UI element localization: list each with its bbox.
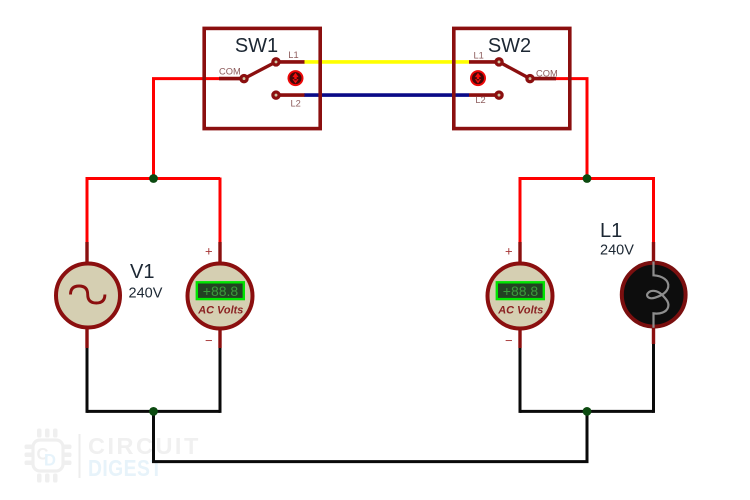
V1 bottom pin stub <box>85 328 88 348</box>
svg-text:L1: L1 <box>474 50 484 60</box>
U2 LCD display <box>497 282 544 299</box>
SW2 toggle actuator button <box>470 70 486 86</box>
AC source V1 <box>56 242 163 348</box>
svg-text:240V: 240V <box>129 286 163 302</box>
SW2 pin stub L2 <box>469 93 495 97</box>
svg-text:+88.8: +88.8 <box>503 283 539 299</box>
wire: black return bus between loops <box>154 411 588 461</box>
L1 top pin stub <box>652 242 655 262</box>
SW2 pin stub L1 <box>469 60 495 64</box>
SW1 terminal COM <box>241 76 247 82</box>
L1 bottom pin stub <box>652 327 655 344</box>
junction node: left bottom <box>149 407 158 416</box>
junction node: right bottom <box>583 407 592 416</box>
SW1 pin stub COM <box>219 77 240 81</box>
wire: yellow traveler L1 between SW1 and SW2 <box>304 60 469 64</box>
svg-text:−: − <box>205 333 213 348</box>
watermark CircuitDigest logo <box>25 429 201 483</box>
svg-text:DIGEST: DIGEST <box>88 455 163 481</box>
svg-text:+: + <box>505 243 513 258</box>
U2 top pin stub <box>518 242 521 263</box>
wire: red lamp L1 top drop <box>652 177 655 244</box>
V1 sine symbol <box>71 286 105 303</box>
svg-text:AC Volts: AC Volts <box>197 304 243 316</box>
wire: red voltmeter U2 top drop <box>519 177 522 244</box>
svg-text:D: D <box>44 452 56 470</box>
SW2 lever L1->COM <box>499 62 530 79</box>
switch SW2 <box>454 28 570 128</box>
svg-text:L1: L1 <box>288 50 298 60</box>
L1 body circle <box>622 263 686 327</box>
svg-text:240V: 240V <box>600 243 634 259</box>
U1 top pin stub <box>218 242 221 263</box>
SW2 pin stub COM <box>534 77 556 81</box>
wire: red top rail of left loop <box>87 177 220 180</box>
U1 bottom pin stub <box>218 329 221 348</box>
wire: black bottom rail of right loop <box>520 410 654 413</box>
wire: black voltmeter U2 bottom drop <box>519 346 522 413</box>
svg-text:COM: COM <box>219 67 241 77</box>
SW2 terminal L2 <box>496 92 502 98</box>
U2 body circle <box>488 264 553 329</box>
SW1 pin stub L2 <box>280 93 305 97</box>
wire: black voltmeter U1 bottom drop <box>219 346 222 413</box>
voltmeter U2 (AC Volts) <box>488 242 553 348</box>
wire: red top rail of right loop <box>520 177 654 180</box>
wire: red from SW2 COM to right loop <box>555 79 587 179</box>
SW2 terminal L1 <box>496 59 502 65</box>
svg-text:+88.8: +88.8 <box>203 283 239 299</box>
SW1 pin stub L1 <box>280 60 305 64</box>
svg-text:COM: COM <box>536 69 558 79</box>
U2 bottom pin stub <box>518 329 521 348</box>
SW1 terminal L1 <box>273 59 279 65</box>
switch SW1 <box>204 28 320 128</box>
wire: red from SW1 COM left <box>154 79 220 179</box>
svg-text:AC Volts: AC Volts <box>497 304 543 316</box>
lamp L1 <box>600 220 686 344</box>
wire: black bottom rail of left loop <box>87 410 220 413</box>
svg-text:−: − <box>505 333 513 348</box>
wire: black lamp bottom drop <box>652 344 655 413</box>
V1 top pin stub <box>85 242 88 263</box>
wire: red voltmeter U1 top drop <box>219 178 222 245</box>
U1 LCD display <box>197 282 244 299</box>
svg-text:L1: L1 <box>600 220 622 242</box>
L1 filament <box>647 262 668 328</box>
wire: red V1 top drop <box>86 177 89 244</box>
voltmeter U1 (AC Volts) <box>188 242 253 348</box>
svg-text:SW1: SW1 <box>235 35 278 57</box>
svg-text:L2: L2 <box>291 99 301 109</box>
svg-text:V1: V1 <box>130 261 154 283</box>
svg-text:+: + <box>205 243 213 258</box>
junction node: left top <box>149 174 158 183</box>
SW1 toggle actuator button <box>288 70 304 86</box>
svg-text:L2: L2 <box>475 95 485 105</box>
SW2 terminal COM <box>527 76 533 82</box>
V1 body circle <box>56 264 120 328</box>
wire: blue traveler L2 between SW1 and SW2 <box>304 93 469 97</box>
wire: black V1 bottom drop <box>86 346 89 413</box>
svg-text:SW2: SW2 <box>488 35 531 57</box>
SW1 terminal L2 <box>273 92 279 98</box>
SW1 lever COM->L1 <box>244 62 276 79</box>
U1 body circle <box>188 264 253 329</box>
junction node: right top <box>583 174 592 183</box>
